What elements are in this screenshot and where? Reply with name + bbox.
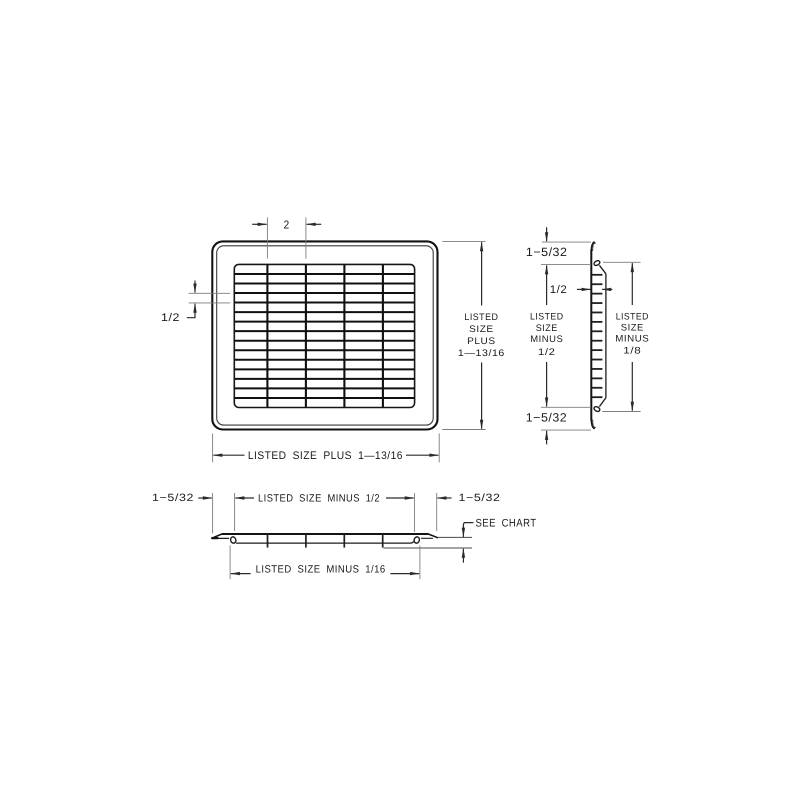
side view: top rolled bead curl [593, 260, 600, 267]
svg-text:SIZE: SIZE [469, 324, 494, 335]
dimension listed size plus 1-13/16 vertical: extension lines [442, 240, 485, 242]
front view: grille core border [234, 264, 414, 407]
side view: bottom transition diagonal [599, 398, 606, 407]
see chart callout: leader and arrows [463, 523, 473, 537]
side dimension listed size minus 1/2: dimension line with arrows [546, 265, 548, 305]
bottom dimension listed size minus 1/16: extension lines [229, 545, 231, 579]
bottom dimension listed size minus 1/16: dimension line with arrows [231, 573, 251, 575]
svg-text:1/2: 1/2 [550, 284, 568, 296]
dimension 2in: extension lines [266, 217, 268, 258]
bottom dimension 1-5/32 right: extension lines [414, 493, 416, 532]
side view: fins [591, 275, 602, 397]
bottom view: right rolled bead curl [413, 536, 420, 544]
side view: fin back line [605, 274, 607, 398]
side dimension listed size minus 1/8: dimension line with arrows [631, 263, 633, 305]
bottom view: left rolled bead curl [230, 536, 237, 544]
side dimension 1-5/32 bottom: outside arrow below [546, 431, 548, 445]
bottom view: divider bar ticks [268, 534, 383, 548]
svg-text:1−5/32: 1−5/32 [526, 245, 568, 259]
svg-text:1−5/32: 1−5/32 [152, 492, 194, 504]
dimension 1/2 slat spacing: bottom arrow leader [187, 317, 195, 319]
side view: top transition diagonal [599, 265, 606, 274]
bottom dimension 1-5/32 left: outside arrow [198, 497, 212, 499]
front view: grille core vertical divider bars [267, 264, 383, 407]
side dimension 1-5/32 top: extension lines [542, 241, 591, 243]
dimension listed size plus 1-13/16 horizontal: dimension line with arrows [213, 454, 244, 456]
bottom dimension listed size minus 1/2: dimension line with arrows [235, 497, 254, 499]
bottom view: back line of shell [237, 542, 414, 543]
svg-text:1−5/32: 1−5/32 [526, 411, 568, 425]
svg-text:2: 2 [284, 219, 290, 231]
svg-text:LISTED SIZE MINUS 1/2: LISTED SIZE MINUS 1/2 [258, 492, 380, 504]
side dimension listed size minus 1/8: extension lines [603, 261, 641, 263]
front view: grille inner frame line [217, 246, 434, 425]
dimension 2in: left arrow [252, 223, 266, 225]
side view: bottom flange [591, 420, 595, 429]
bottom view: right flange [428, 534, 437, 538]
side view: top flange [591, 242, 595, 251]
svg-text:SIZE: SIZE [536, 323, 558, 334]
side view: bottom rolled bead curl [593, 406, 600, 413]
svg-text:1−5/32: 1−5/32 [459, 492, 501, 504]
side dimension 1/2 depth: right arrow [602, 288, 612, 290]
svg-text:1/8: 1/8 [623, 346, 641, 357]
bottom dimension 1-5/32 right: outside arrow [438, 497, 452, 499]
side dimension 1-5/32 top: outside arrow above [546, 227, 548, 241]
dimension 1/2 slat spacing: top arrow [194, 281, 196, 293]
svg-text:LISTED SIZE PLUS 1—13/16: LISTED SIZE PLUS 1—13/16 [248, 450, 403, 462]
svg-text:LISTED: LISTED [616, 311, 649, 322]
svg-text:LISTED: LISTED [530, 312, 564, 323]
svg-text:SIZE: SIZE [621, 322, 644, 333]
bottom view: left flange [212, 534, 222, 538]
svg-text:1—13/16: 1—13/16 [458, 348, 505, 359]
bottom view: frame face top line [222, 533, 428, 535]
dimension listed size plus 1-13/16 horizontal: extension lines [212, 433, 214, 462]
front view: grille outer frame [212, 241, 437, 429]
side dimension 1/2 depth: left arrow [577, 288, 591, 290]
see chart callout: extension lines [438, 536, 472, 538]
svg-text:SEE CHART: SEE CHART [476, 518, 537, 530]
dimension 1/2 slat spacing: extension lines [189, 292, 231, 294]
svg-text:LISTED SIZE MINUS 1/16: LISTED SIZE MINUS 1/16 [256, 564, 386, 576]
svg-text:1/2: 1/2 [538, 347, 556, 358]
svg-text:1/2: 1/2 [161, 312, 180, 324]
dimension 2in: right arrow [307, 223, 322, 225]
svg-text:MINUS: MINUS [530, 334, 563, 345]
side dimension 1-5/32 bottom: extension lines [541, 406, 591, 408]
front view: grille core horizontal slat lines [234, 274, 414, 398]
svg-text:PLUS: PLUS [467, 336, 496, 347]
dimension listed size plus 1-13/16 vertical: dimension line with arrows [481, 242, 483, 305]
bottom dimension 1-5/32 left: extension lines [212, 493, 214, 533]
side view: frame face line [590, 250, 592, 421]
svg-text:LISTED: LISTED [464, 312, 498, 323]
svg-text:MINUS: MINUS [615, 334, 649, 345]
